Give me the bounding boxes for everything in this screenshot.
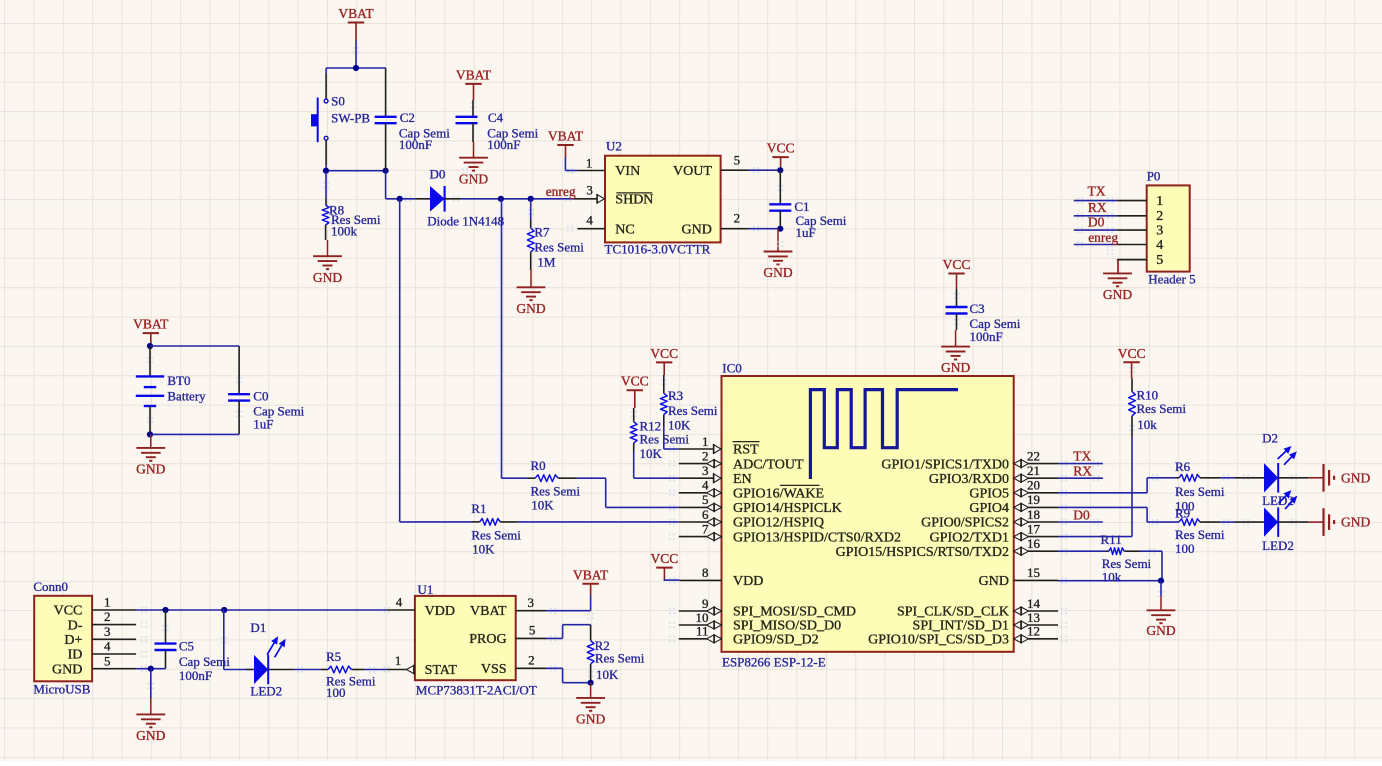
svg-text:VCC: VCC [767,141,795,156]
junction battery bottom [147,431,153,437]
capacitor C1 [769,170,847,240]
net label RX (IC0) [1073,464,1092,479]
svg-text:15: 15 [1027,565,1040,580]
connector Conn0 MicroUSB body [33,579,92,697]
resistor R3 [660,375,717,433]
svg-text:GPIO0/SPICS2: GPIO0/SPICS2 [921,516,1009,531]
wire VBAT to S0/C2 node [355,40,357,68]
ground GND (pin15) [1146,596,1175,638]
IC0 pin 15 GND [979,565,1058,589]
svg-text:GPIO4: GPIO4 [969,501,1009,516]
IC0 antenna meander [810,390,958,479]
svg-text:5: 5 [702,492,709,507]
Conn0 pin 5 GND [52,653,136,677]
junction R0 tap [498,196,504,202]
IC0 pin 20 GPIO5 [969,478,1058,502]
svg-text:GND: GND [52,662,82,677]
P0 pin 3 [1117,223,1164,238]
svg-text:14: 14 [1027,596,1041,611]
svg-text:R5: R5 [326,649,341,664]
svg-text:5: 5 [529,623,536,638]
wire battery bottom loop [150,433,239,435]
svg-text:MCP73831T-2ACI/OT: MCP73831T-2ACI/OT [416,682,537,697]
svg-text:C5: C5 [179,639,194,654]
svg-text:19: 19 [1027,492,1040,507]
svg-text:VBAT: VBAT [573,567,609,582]
ground GND (R7) [516,270,545,316]
svg-text:2: 2 [104,609,111,624]
resistor R7 [527,199,584,270]
svg-text:GND: GND [682,222,712,237]
wire GND pin15 [1058,580,1162,582]
svg-text:GPIO3/RXD0: GPIO3/RXD0 [929,472,1009,487]
net label TX (IC0) [1073,449,1091,464]
svg-text:Conn0: Conn0 [33,579,68,594]
net label TX (P0) [1088,184,1106,199]
svg-text:VCC: VCC [54,604,83,619]
U1 pin 5 PROG [469,623,546,647]
svg-text:C3: C3 [970,301,985,316]
svg-text:16: 16 [1027,536,1041,551]
svg-text:20: 20 [1027,478,1040,493]
svg-text:17: 17 [1027,521,1041,536]
svg-text:GND: GND [516,301,545,316]
wire R0 to GPIO14 [577,478,679,507]
U2 pin 5 VOUT [673,153,749,179]
resistor R5 [321,649,376,700]
svg-text:4: 4 [586,213,593,228]
wire enreg net (P0) [1074,244,1117,246]
svg-text:5: 5 [734,153,741,168]
P0 pin 2 [1117,209,1164,224]
LED D2 [1235,430,1297,508]
svg-text:GND: GND [1341,515,1370,530]
svg-text:13: 13 [1027,610,1040,625]
power port VBAT (C4) [456,67,492,100]
resistor R11 [1101,532,1152,585]
net label enreg (U2) [546,184,576,199]
svg-text:VBAT: VBAT [133,317,169,332]
ground GND (LED2, sideways) [1308,508,1370,536]
wire C0 drop [238,346,240,394]
svg-text:GND: GND [1103,287,1132,302]
svg-text:VBAT: VBAT [338,6,374,21]
svg-text:Res Semi: Res Semi [640,431,690,446]
svg-text:12: 12 [1027,624,1040,639]
wire U2 GND to C1 [749,228,781,230]
wire C2node down to diode row [386,171,416,199]
wire PROG to R2 [546,625,591,639]
wire R9 to LED2 [1220,521,1235,523]
LED D3 (LED2) [1235,490,1297,553]
svg-text:Res Semi: Res Semi [668,403,718,418]
svg-text:D0: D0 [1088,214,1105,229]
svg-text:MicroUSB: MicroUSB [33,681,90,696]
svg-text:VOUT: VOUT [673,164,712,179]
svg-text:SPI_MOSI/SD_CMD: SPI_MOSI/SD_CMD [733,605,856,620]
IC0 pin 13 SPI_INT/SD_D1 [913,610,1058,634]
wire S0 top lead [325,68,327,99]
svg-text:100nF: 100nF [970,329,1003,344]
ground GND (USB) [136,699,165,744]
Conn0 pin 3 D+ [64,624,136,648]
net label D0 (IC0) [1073,507,1090,522]
wire S0/R8/C2 bottom [326,170,386,172]
capacitor C3 [946,289,1021,344]
svg-text:2: 2 [734,210,741,225]
svg-text:1: 1 [586,155,593,170]
svg-text:VDD: VDD [733,574,763,589]
svg-text:Res Semi: Res Semi [595,651,645,666]
svg-text:C0: C0 [253,388,268,403]
junction D1 tap [221,607,227,613]
Conn0 pin 2 D- [68,609,136,633]
svg-text:C1: C1 [794,199,809,214]
svg-text:R9: R9 [1175,506,1190,521]
svg-text:enreg: enreg [546,184,576,199]
svg-text:GND: GND [763,265,792,280]
junction VBAT top [353,65,359,71]
svg-text:STAT: STAT [425,663,458,678]
junction battery top [147,343,153,349]
IC0 pin 5 GPIO14/HSPICLK [679,492,842,516]
junction C2 bottom [383,168,389,174]
wire S0 bottom lead [325,140,327,171]
IC0 WAKE overline [780,484,820,486]
svg-text:GPIO12/HSPIQ: GPIO12/HSPIQ [733,516,824,531]
svg-text:10k: 10k [1137,417,1157,432]
svg-text:Diode 1N4148: Diode 1N4148 [427,214,504,229]
svg-text:R6: R6 [1175,459,1191,474]
U1 pin 3 VBAT [470,595,546,619]
svg-text:GND: GND [136,462,165,477]
svg-text:100: 100 [1175,541,1195,556]
svg-text:EN: EN [733,472,752,487]
svg-text:1: 1 [702,434,709,449]
U2 pin 3 SHDN [575,183,654,208]
svg-text:VCC: VCC [651,551,679,566]
svg-text:NC: NC [615,222,634,237]
IC0 pin 14 SPI_CLK/SD_CLK [897,596,1058,620]
svg-text:GPIO16/WAKE: GPIO16/WAKE [733,487,824,502]
P0 pin 1 [1117,194,1164,209]
svg-text:ID: ID [68,648,83,663]
svg-text:4: 4 [1156,238,1163,253]
svg-text:SPI_CLK/SD_CLK: SPI_CLK/SD_CLK [897,605,1009,620]
svg-text:22: 22 [1027,448,1040,463]
wire TX net (P0) [1074,200,1117,202]
switch S0 SW-PB [311,93,370,142]
svg-text:C2: C2 [400,110,415,125]
pin hotspot marks [141,47,1297,689]
svg-text:GPIO2/TXD1: GPIO2/TXD1 [930,530,1009,545]
svg-text:3: 3 [586,183,593,198]
svg-text:Res Semi: Res Semi [471,527,521,542]
svg-text:1: 1 [1156,194,1163,209]
svg-text:VIN: VIN [615,164,640,179]
svg-text:2: 2 [528,652,535,667]
svg-text:VCC: VCC [621,374,649,389]
svg-text:R3: R3 [668,388,683,403]
svg-text:TX: TX [1088,184,1106,199]
svg-text:GPIO14/HSPICLK: GPIO14/HSPICLK [733,501,842,516]
IC0 pin 12 GPIO10/SPI_CS/SD_D3 [868,624,1058,648]
ground GND (R8) [313,240,342,285]
IC0 pin 21 GPIO3/RXD0 [929,463,1058,487]
svg-text:10K: 10K [472,541,495,556]
power port VBAT (U1) [573,567,609,595]
Conn0 pin 4 ID [68,639,136,663]
svg-text:RST: RST [733,443,759,458]
power port VBAT (U2) [548,129,584,158]
wire R3 to RST [664,426,679,449]
svg-text:18: 18 [1027,507,1040,522]
svg-text:ADC/TOUT: ADC/TOUT [733,457,804,472]
IC0 pin 17 GPIO2/TXD1 [930,521,1058,545]
svg-text:Res Semi: Res Semi [531,483,581,498]
resistor R1 [400,501,522,556]
IC0 pin 16 GPIO15/HSPICS/RTS0/TXD2 [836,536,1058,560]
header P0 body [1147,169,1196,287]
svg-text:SPI_INT/SD_D1: SPI_INT/SD_D1 [913,619,1009,634]
U2 pin 4 NC [577,213,634,238]
svg-text:4: 4 [396,594,403,609]
svg-text:SW-PB: SW-PB [331,110,370,125]
svg-text:D+: D+ [64,633,82,648]
wire GPIO15 to R11 [1058,550,1106,552]
svg-text:10K: 10K [596,667,619,682]
ground GND (D2, sideways) [1308,464,1370,492]
svg-text:8: 8 [702,565,709,580]
IC0 pin 11 GPIO9/SD_D2 [679,624,819,648]
svg-text:4: 4 [702,478,709,493]
Conn0 pin 1 VCC [54,595,136,619]
svg-text:LED2: LED2 [1262,538,1294,553]
IC0 pin 22 GPIO1/SPICS1/TXD0 [881,448,1058,472]
svg-text:S0: S0 [331,93,345,108]
capacitor C0 [228,388,305,434]
U1 pin 4 VDD [387,594,455,619]
power port VCC (VDD pin8) [651,551,679,580]
svg-text:2: 2 [702,448,709,463]
svg-text:7: 7 [702,521,709,536]
IC IC0 ESP8266 body [722,361,1014,670]
svg-text:GPIO15/HSPICS/RTS0/TXD2: GPIO15/HSPICS/RTS0/TXD2 [836,545,1009,560]
svg-text:100k: 100k [331,224,358,239]
wire RXD0 net [1058,477,1103,479]
svg-text:R7: R7 [534,225,550,240]
resistor R12 [630,408,689,461]
wire R0 vertical [501,199,503,478]
wire battery top loop [150,345,239,347]
svg-text:2: 2 [1156,209,1163,224]
ground GND (battery) [136,434,165,476]
ground GND (C4) [459,142,488,186]
svg-text:5: 5 [1156,253,1163,268]
svg-text:TC1016-3.0VCTTR: TC1016-3.0VCTTR [605,242,711,257]
junction GND node [1158,578,1164,597]
svg-text:21: 21 [1027,463,1040,478]
capacitor C5 [155,610,231,683]
svg-text:VCC: VCC [943,257,971,272]
wire R6 to LED D2 [1220,477,1235,479]
svg-text:SPI_MISO/SD_D0: SPI_MISO/SD_D0 [733,619,841,634]
svg-text:GPIO9/SD_D2: GPIO9/SD_D2 [733,633,819,648]
wire R5 to STAT [364,669,387,671]
svg-text:Res Semi: Res Semi [534,240,584,255]
ground GND (R2) [576,683,605,727]
svg-text:Header 5: Header 5 [1148,272,1195,287]
resistor R2 [587,625,645,683]
junction S0 bottom [323,168,329,174]
svg-text:3: 3 [104,624,111,639]
wire D1 to R5 [294,669,321,671]
svg-text:3: 3 [1156,223,1163,238]
power port VCC (R12) [621,374,649,408]
svg-text:GND: GND [136,728,165,743]
LED D1 [246,620,294,699]
svg-text:Cap Semi: Cap Semi [179,654,230,669]
capacitor C4 [456,100,539,152]
svg-text:R11: R11 [1101,532,1122,547]
net label enreg (P0) [1088,230,1118,245]
junction VOUT [777,167,783,173]
svg-text:VBAT: VBAT [456,67,492,82]
power port VBAT (battery) [133,317,169,346]
wire D0 net (P0) [1074,229,1117,231]
wire R1 to GPIO12 [518,521,679,523]
svg-text:100nF: 100nF [399,137,432,152]
svg-text:Res Semi: Res Semi [1175,484,1225,499]
IC0 pin 3 EN [679,463,752,487]
power port VCC (C3) [943,257,971,289]
svg-text:Res Semi: Res Semi [1137,401,1187,416]
wire D2 to GND [1278,477,1308,479]
svg-text:Battery: Battery [167,388,206,403]
junction C1 bottom [777,226,783,232]
U2 pin 1 VIN [577,155,640,179]
svg-text:D0: D0 [430,166,446,181]
svg-text:1uF: 1uF [253,417,273,432]
svg-text:3: 3 [528,595,535,610]
U2 pin 2 GND [682,210,749,237]
svg-text:VBAT: VBAT [470,604,507,619]
wire LED2 to GND [1278,521,1308,523]
net label D0 (P0) [1088,214,1105,229]
IC0 pin 9 SPI_MOSI/SD_CMD [679,596,856,620]
net label RX (P0) [1088,200,1107,215]
wire VBAT pin3 [546,595,591,611]
wire GPIO5 to R6 [1058,478,1176,493]
svg-text:5: 5 [104,653,111,668]
svg-text:RX: RX [1088,200,1107,215]
svg-text:TX: TX [1073,449,1091,464]
wire VOUT to VCC [749,169,781,171]
IC0 pin 10 SPI_MISO/SD_D0 [679,610,841,634]
svg-text:Res Semi: Res Semi [1175,527,1225,542]
wire GPIO4 to R9 [1058,507,1179,522]
U1 pin 1 STAT [387,653,458,678]
wire diode to SHDN [460,198,575,200]
power port VCC (R3) [650,346,678,375]
svg-text:GPIO13/HSPID/CTS0/RXD2: GPIO13/HSPID/CTS0/RXD2 [733,530,901,545]
svg-text:6: 6 [702,507,709,522]
IC0 pin 8 VDD [679,565,763,589]
resistor R10 [1129,378,1187,437]
wire RX net (P0) [1074,215,1117,217]
wire VCC to VDD [664,579,679,581]
power port VBAT (top) [338,6,374,40]
wire GPIO0 net [1058,521,1103,523]
junction R2 bottom [588,680,594,686]
svg-text:P0: P0 [1147,169,1161,184]
svg-text:C4: C4 [488,110,504,125]
IC0 pin 4 GPIO16/WAKE [679,478,824,502]
power port VCC (U2 out) [767,141,795,171]
wire R11 to GND node [1140,551,1162,581]
svg-text:D0: D0 [1073,507,1090,522]
IC0 pin 7 GPIO13/HSPID/CTS0/RXD2 [679,521,901,545]
svg-text:D-: D- [68,618,83,633]
diode D0 1N4148 [416,166,504,228]
svg-text:10: 10 [696,610,709,625]
wire GND row (USB) [136,668,165,670]
IC U1 MCP73831 body [415,582,537,697]
svg-text:GPIO1/SPICS1/TXD0: GPIO1/SPICS1/TXD0 [881,457,1009,472]
power port VCC (R10) [1118,346,1146,378]
svg-text:D2: D2 [1262,430,1278,445]
P0 pin 5 [1117,253,1164,268]
capacitor C2 [375,68,451,171]
U1 pin 2 VSS [481,652,546,677]
svg-text:IC0: IC0 [722,361,742,376]
svg-text:GND: GND [979,574,1009,589]
P0 pin 4 [1117,238,1164,253]
svg-text:1uF: 1uF [796,225,816,240]
wire TXD0 net [1058,463,1103,465]
svg-text:U2: U2 [606,139,622,154]
resistor R9 [1175,506,1225,557]
ground GND (P0) [1103,273,1132,302]
svg-text:100nF: 100nF [487,137,520,152]
IC0 pin 2 ADC/TOUT [679,448,804,472]
IC0 RST overline [733,441,760,443]
svg-text:10K: 10K [668,418,691,433]
IC0 pin 19 GPIO4 [969,492,1058,516]
wire R10 to GPIO2 [1058,437,1132,537]
svg-text:1: 1 [104,595,111,610]
IC0 pin 6 GPIO12/HSPIQ [679,507,824,531]
svg-text:RX: RX [1073,464,1092,479]
wire D1 drop [224,610,246,670]
svg-text:10k: 10k [1102,570,1122,585]
svg-text:BT0: BT0 [167,373,190,388]
svg-text:VSS: VSS [481,662,507,677]
svg-text:1: 1 [395,653,402,668]
junction USB gnd [148,666,154,672]
ground GND (C3) [941,330,970,375]
ground GND (C1) [763,229,792,281]
svg-text:GND: GND [1341,470,1370,485]
wire VSS to R2 [546,668,591,682]
svg-text:VCC: VCC [1118,346,1146,361]
svg-text:U1: U1 [418,582,434,597]
wire P0 pin5 to GND [1118,260,1147,274]
svg-text:VDD: VDD [425,604,455,619]
svg-text:R0: R0 [531,458,546,473]
battery BT0 [136,346,206,434]
svg-text:1M: 1M [537,255,556,270]
